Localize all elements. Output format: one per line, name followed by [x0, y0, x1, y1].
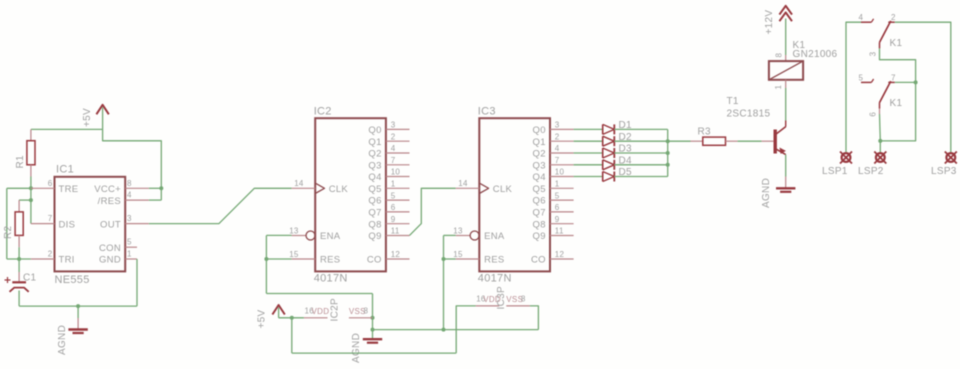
svg-text:Q0: Q0	[368, 125, 381, 136]
svg-text:6: 6	[391, 203, 396, 212]
svg-text:14: 14	[458, 179, 468, 188]
junction IC2 RES tap	[264, 257, 268, 261]
svg-text:15: 15	[289, 250, 299, 259]
svg-text:6: 6	[48, 179, 53, 188]
IC3 pin Q4 (pin 10)	[550, 176, 574, 178]
svg-text:K1: K1	[890, 98, 903, 109]
IC1 pin /RES (4)	[125, 199, 149, 201]
svg-text:+12V: +12V	[764, 10, 775, 35]
svg-text:C1: C1	[23, 273, 37, 284]
svg-text:GND: GND	[99, 255, 121, 266]
wire TRE node down to DIS	[30, 188, 32, 223]
bottom wire under IC1	[19, 305, 137, 307]
svg-text:IC2P: IC2P	[330, 298, 341, 321]
svg-text:2: 2	[891, 13, 896, 22]
IC2 pin Q4 (pin 10)	[386, 176, 410, 178]
svg-text:ENA: ENA	[320, 231, 341, 242]
svg-text:IC3: IC3	[478, 106, 496, 118]
diode D2	[602, 136, 604, 146]
svg-text:3: 3	[391, 121, 396, 130]
svg-text:AGND: AGND	[761, 178, 772, 208]
svg-text:Q6: Q6	[533, 196, 546, 207]
svg-text:CO: CO	[367, 255, 382, 266]
wire D3 cathode to OR rail	[614, 152, 667, 154]
svg-text:ENA: ENA	[484, 231, 505, 242]
diode D5	[602, 172, 604, 182]
junction D2 row	[666, 139, 670, 143]
svg-text:+5V: +5V	[82, 108, 93, 127]
svg-text:5: 5	[391, 191, 396, 200]
svg-text:2SC1815: 2SC1815	[727, 109, 771, 120]
svg-text:7: 7	[48, 214, 53, 223]
C1 plus sign	[5, 279, 11, 281]
AGND rail to IC3	[373, 329, 539, 331]
junction VSS tip	[371, 316, 375, 320]
IC2 pin Q9 (pin 11)	[386, 235, 410, 237]
svg-text:4017N: 4017N	[478, 273, 512, 285]
wire /RES pin4 to +5V rail	[149, 199, 162, 201]
svg-text:4: 4	[555, 144, 560, 153]
wire IC2 Q9 to IC3 CLK	[410, 188, 456, 235]
IC3 pin Q1 (pin 2)	[550, 140, 574, 142]
svg-text:9: 9	[555, 215, 560, 224]
svg-text:8: 8	[775, 53, 784, 58]
IC1 pin OUT (3)	[125, 223, 149, 225]
solder pad LSP1	[842, 153, 851, 162]
wire OR rail to R3	[668, 140, 691, 142]
wire T1 collector up to relay coil	[785, 92, 787, 121]
wire OUT to IC2 CLK with diagonal	[149, 188, 292, 223]
relay contact K1 pin 4 (NC)	[861, 21, 871, 23]
wire AGND rail up to IC3 VSS	[530, 306, 539, 330]
svg-text:Q9: Q9	[533, 231, 546, 242]
IC2 pin Q5 (pin 1)	[386, 187, 410, 189]
svg-text:Q7: Q7	[533, 208, 546, 219]
svg-text:7: 7	[555, 156, 560, 165]
wire left vertical TRE to TRI	[6, 188, 8, 259]
wire pin7 to common net	[895, 81, 916, 83]
wire IC3 Q3 to D4	[574, 164, 603, 166]
svg-text:Q5: Q5	[533, 184, 546, 195]
svg-text:3: 3	[555, 121, 560, 130]
svg-text:6: 6	[869, 112, 878, 117]
svg-text:Q2: Q2	[368, 149, 381, 160]
wire NC pin4 to LSP1	[846, 22, 861, 152]
svg-text:1: 1	[127, 250, 132, 259]
junction +5V bottom	[290, 316, 294, 320]
junction D3 row	[666, 151, 670, 155]
svg-text:VDD: VDD	[312, 307, 330, 316]
relay K1 coil	[785, 55, 787, 61]
wire IC3 Q4 to D5	[574, 176, 603, 178]
svg-text:11: 11	[555, 227, 564, 236]
wire IC2 enable net to VSS	[266, 293, 372, 295]
junction IC3 enable tap on AGND rail	[442, 328, 446, 332]
IC2 pin ENA (pin 13) with inversion bubble	[292, 235, 306, 237]
relay contact K1 lever	[880, 81, 891, 103]
svg-text:Q3: Q3	[533, 160, 546, 171]
svg-text:IC2: IC2	[314, 106, 332, 118]
svg-text:13: 13	[453, 226, 463, 235]
junction contact B NO tap	[914, 80, 918, 84]
diode D4	[602, 160, 604, 170]
resistor R1	[30, 129, 32, 140]
svg-text:R1: R1	[15, 155, 26, 169]
svg-text:AGND: AGND	[57, 325, 68, 355]
svg-text:/RES: /RES	[98, 196, 121, 207]
wire IC2 ENA/RES down	[266, 234, 291, 236]
relay contact K1 pin 2 (NO)	[888, 21, 895, 23]
IC3 pin CLK (pin 14) with clock triangle	[456, 187, 480, 189]
junction TRI node	[17, 257, 21, 261]
svg-text:RES: RES	[484, 255, 504, 266]
supply +12V	[779, 6, 792, 15]
svg-text:CLK: CLK	[329, 184, 349, 195]
svg-text:4: 4	[391, 144, 396, 153]
wire common3 jog down	[880, 48, 916, 152]
svg-text:8: 8	[364, 306, 369, 315]
junction R2 tap	[29, 198, 33, 202]
ground AGND under IC1	[77, 306, 79, 318]
svg-text:Q6: Q6	[368, 196, 381, 207]
IC1 NE555 box	[55, 177, 126, 272]
svg-text:2: 2	[48, 250, 53, 259]
IC3 pin Q3 (pin 7)	[550, 164, 574, 166]
IC2 pin Q6 (pin 5)	[386, 199, 410, 201]
svg-text:7: 7	[891, 73, 896, 82]
svg-text:3: 3	[127, 214, 132, 223]
svg-text:1: 1	[391, 180, 396, 189]
svg-text:CO: CO	[531, 255, 546, 266]
IC2 pin Q8 (pin 9)	[386, 223, 410, 225]
svg-text:1: 1	[774, 85, 783, 90]
svg-text:10: 10	[391, 168, 401, 177]
svg-text:LSP2: LSP2	[858, 166, 884, 177]
svg-text:Q8: Q8	[368, 219, 381, 230]
IC IC3 4017N box	[479, 118, 550, 271]
svg-text:5: 5	[127, 238, 132, 247]
IC3 pin Q7 (pin 6)	[550, 211, 574, 213]
IC2 pin CO (pin 12)	[386, 258, 410, 260]
wire +5V down to rail	[102, 107, 104, 129]
svg-text:DIS: DIS	[59, 219, 76, 230]
IC3 pin ENA (pin 13) with inversion bubble	[456, 235, 470, 237]
svg-text:6: 6	[555, 203, 560, 212]
wire IC3 Q0 to D1	[574, 128, 603, 130]
wire D4 cathode to OR rail	[614, 164, 667, 166]
svg-text:Q9: Q9	[368, 231, 381, 242]
IC3 pin Q6 (pin 5)	[550, 199, 574, 201]
svg-text:Q1: Q1	[368, 137, 381, 148]
junction AGND tap	[76, 304, 80, 308]
relay contact K1 lever	[880, 21, 891, 43]
svg-text:NE555: NE555	[55, 274, 90, 286]
diode D3	[602, 148, 604, 158]
svg-text:IC1: IC1	[56, 164, 74, 176]
wire GND pin1 down	[136, 259, 138, 306]
wire IC3 Q2 to D3	[574, 152, 603, 154]
svg-text:7: 7	[391, 156, 396, 165]
svg-text:GN21006: GN21006	[793, 49, 838, 60]
IC IC2 4017N box	[315, 118, 386, 271]
relay contact K1 pin 5 (NC)	[861, 81, 871, 83]
svg-text:Q7: Q7	[368, 208, 381, 219]
svg-text:TRI: TRI	[59, 255, 75, 266]
resistor R2	[18, 200, 20, 212]
svg-text:2: 2	[391, 132, 396, 141]
svg-text:2: 2	[555, 132, 560, 141]
IC3 pin CO (pin 12)	[550, 258, 574, 260]
IC3 pin Q9 (pin 11)	[550, 235, 574, 237]
power part IC2P VDD pin (16)	[304, 317, 328, 319]
svg-text:10: 10	[555, 168, 565, 177]
IC2 pin RES (pin 15)	[292, 258, 316, 260]
wire +5V rail up to IC3 VDD	[456, 306, 475, 353]
svg-text:CLK: CLK	[493, 184, 513, 195]
supply +5V (top left)	[96, 105, 108, 115]
wire VCC+ pin8 to rail	[149, 187, 162, 189]
wire NO pin2 to LSP3	[895, 22, 951, 152]
wire IC3 ENA/RES down to AGND rail	[444, 234, 456, 236]
svg-text:12: 12	[555, 250, 565, 259]
svg-text:3: 3	[869, 51, 878, 56]
IC2 pin CLK (pin 14) with clock triangle	[292, 187, 316, 189]
svg-text:Q3: Q3	[368, 160, 381, 171]
svg-text:K1: K1	[890, 38, 903, 49]
svg-text:5: 5	[859, 73, 864, 82]
junction LSP2 node	[878, 139, 882, 143]
ground AGND under T1	[785, 177, 787, 189]
wire TRE node left	[7, 187, 31, 189]
diode OR common rail	[667, 129, 669, 176]
svg-text:VCC+: VCC+	[94, 184, 121, 195]
svg-text:Q8: Q8	[533, 219, 546, 230]
capacitor C1 (polarized)	[18, 259, 20, 272]
IC2 pin Q7 (pin 6)	[386, 211, 410, 213]
junction at VCC rail	[159, 186, 163, 190]
svg-text:OUT: OUT	[100, 219, 121, 230]
transistor T1 2SC1815	[762, 140, 774, 142]
solder pad LSP3	[946, 153, 955, 162]
resistor R3	[691, 140, 703, 142]
wire +12V to coil	[785, 19, 787, 56]
svg-text:13: 13	[289, 226, 299, 235]
svg-text:5: 5	[555, 191, 560, 200]
IC2 pin Q2 (pin 4)	[386, 152, 410, 154]
IC3 pin Q0 (pin 3)	[550, 128, 574, 130]
wire +5V horizontal rail to R1	[31, 128, 103, 130]
IC2 pin Q1 (pin 2)	[386, 140, 410, 142]
svg-text:+5V: +5V	[257, 309, 268, 328]
supply +5V (bottom middle)	[272, 305, 284, 315]
svg-text:1: 1	[555, 180, 560, 189]
wire TRI row	[7, 258, 31, 260]
svg-text:LSP1: LSP1	[822, 166, 848, 177]
solder pad LSP2	[876, 153, 885, 162]
svg-text:AGND: AGND	[351, 333, 362, 363]
svg-text:Q2: Q2	[533, 149, 546, 160]
IC2 pin Q3 (pin 7)	[386, 164, 410, 166]
svg-text:8: 8	[521, 294, 526, 303]
power part IC2P VSS pin (8)	[349, 317, 373, 319]
IC1 pin DIS (7)	[31, 223, 55, 225]
wire R3 to T1 base	[738, 140, 762, 142]
svg-text:R3: R3	[698, 127, 712, 138]
wire coil to collector	[785, 80, 787, 88]
svg-text:4017N: 4017N	[314, 273, 348, 285]
svg-text:CON: CON	[99, 243, 121, 254]
IC1 pin VCC+ (8)	[125, 187, 149, 189]
wire +5V to IC1 VCC	[103, 129, 162, 200]
power part IC3P VDD pin (16)	[476, 305, 500, 307]
svg-text:Q5: Q5	[368, 184, 381, 195]
svg-text:8: 8	[127, 179, 132, 188]
IC1 pin GND (1)	[125, 258, 137, 260]
wire common6 down to LSP2	[879, 108, 881, 114]
svg-text:14: 14	[294, 179, 304, 188]
wire R1 to TRE junction	[30, 177, 32, 189]
wire IC3 Q1 to D2	[574, 140, 603, 142]
wire D2 cathode to OR rail	[614, 140, 667, 142]
wire R2 bottom to TRI row	[18, 247, 20, 259]
svg-text:Q0: Q0	[533, 125, 546, 136]
wire +5V arrow to VDD junction	[279, 317, 304, 319]
svg-text:11: 11	[391, 227, 400, 236]
power part IC3P VSS pin (8)	[506, 305, 530, 307]
ground AGND under IC2	[363, 338, 382, 340]
junction D4 row	[666, 163, 670, 167]
svg-text:15: 15	[453, 250, 463, 259]
junction TRE node	[29, 186, 33, 190]
wire D5 cathode to OR rail	[614, 176, 667, 178]
IC3 pin RES (pin 15)	[456, 258, 480, 260]
svg-text:4: 4	[127, 191, 132, 200]
relay contact K1 pin 7 (NO)	[888, 81, 895, 83]
junction AGND rail tap	[371, 328, 375, 332]
junction IC3 RES tap	[442, 257, 446, 261]
svg-text:T1: T1	[727, 96, 739, 107]
IC1 pin TRE (6)	[31, 187, 55, 189]
svg-text:TRE: TRE	[59, 184, 79, 195]
wire jog to R2 top	[19, 199, 31, 201]
+5V bottom rail	[291, 318, 293, 353]
svg-text:R2: R2	[3, 225, 14, 239]
IC3 pin Q2 (pin 4)	[550, 152, 574, 154]
IC3 pin Q8 (pin 9)	[550, 223, 574, 225]
wire T1 emitter down	[785, 155, 787, 177]
svg-text:Q4: Q4	[533, 172, 546, 183]
svg-text:LSP3: LSP3	[931, 166, 957, 177]
svg-text:RES: RES	[320, 255, 340, 266]
IC1 pin TRI (2)	[31, 258, 55, 260]
svg-text:9: 9	[391, 215, 396, 224]
wire D1 cathode to OR rail	[614, 128, 667, 130]
diode D1	[602, 124, 604, 134]
svg-text:Q4: Q4	[368, 172, 381, 183]
IC3 pin Q5 (pin 1)	[550, 187, 574, 189]
svg-text:Q1: Q1	[533, 137, 546, 148]
IC2 pin Q0 (pin 3)	[386, 128, 410, 130]
svg-text:12: 12	[391, 250, 401, 259]
svg-text:4: 4	[859, 13, 864, 22]
IC1 pin CON (5)	[125, 246, 137, 248]
wire C1 bottom	[18, 291, 20, 307]
